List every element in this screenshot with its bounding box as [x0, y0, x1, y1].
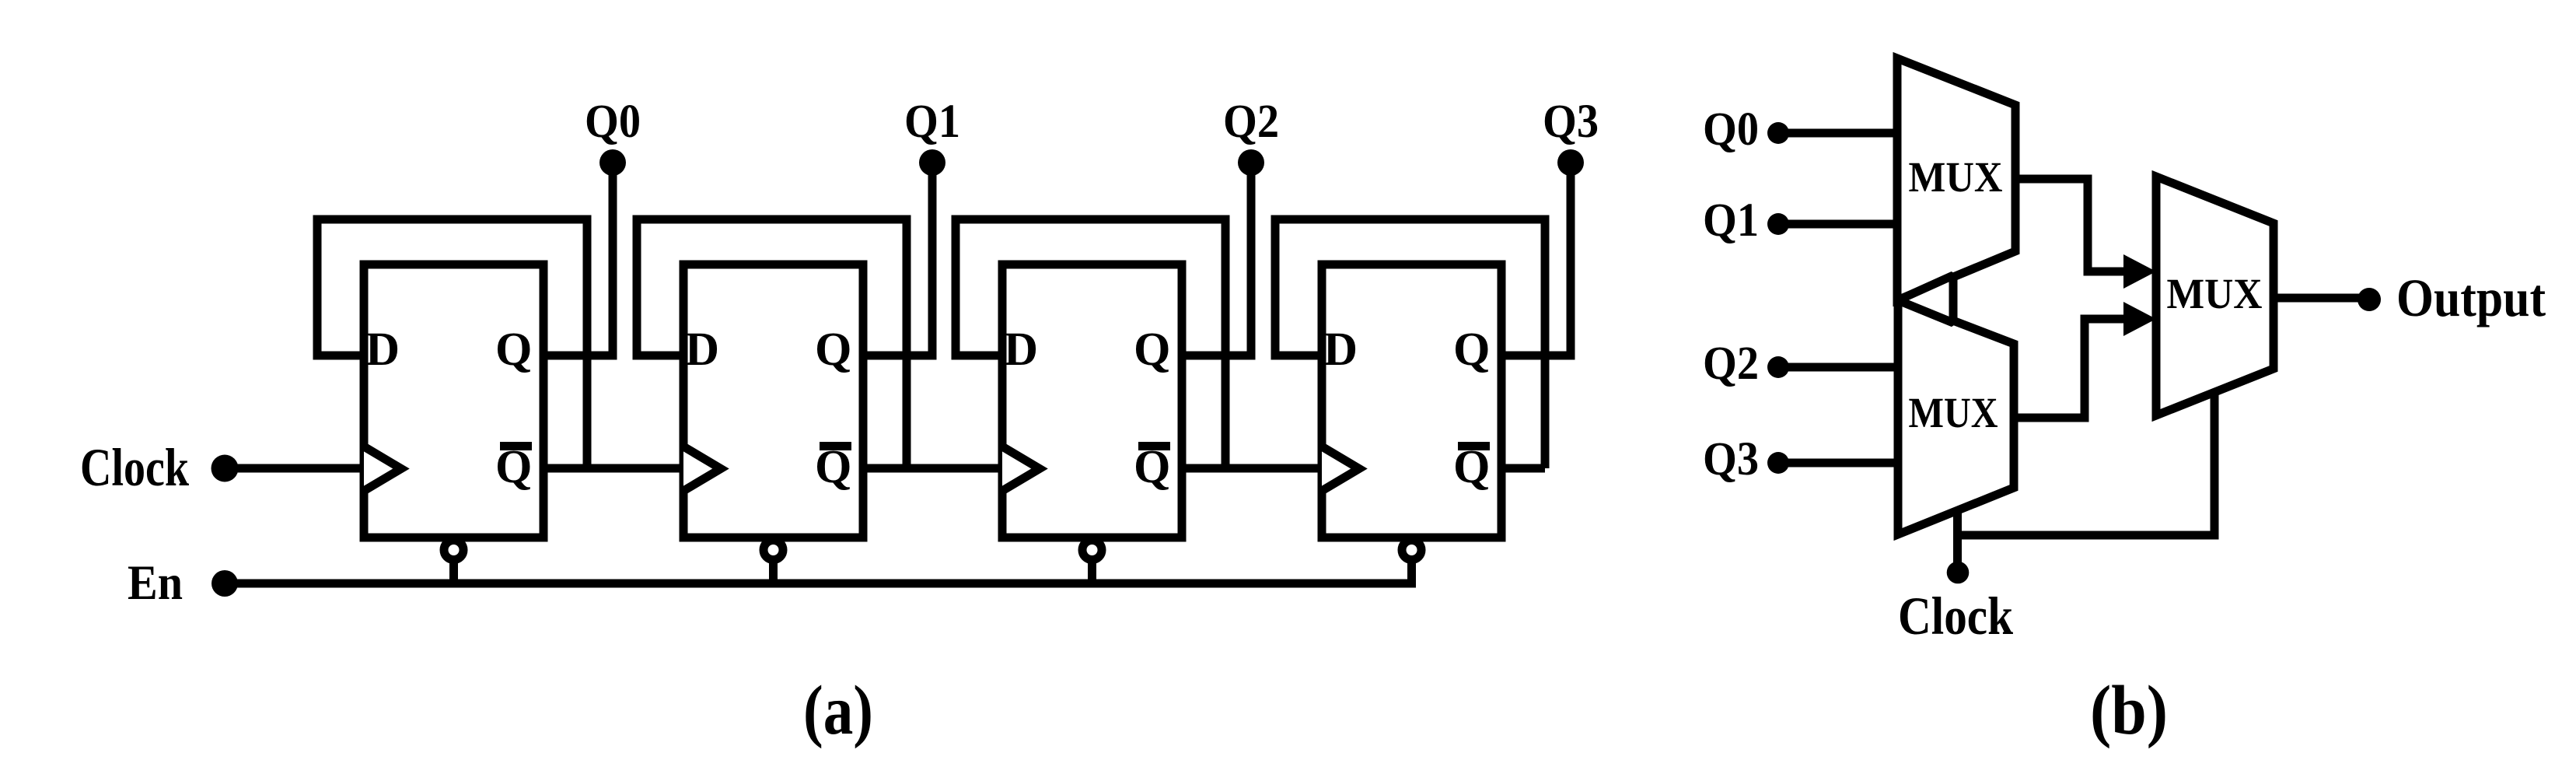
- wire U2 Qbar output to next stage clock: [863, 464, 1002, 473]
- enable bubble stub of U4: [1407, 550, 1416, 583]
- wire U4 Qbar output stub: [1501, 464, 1545, 473]
- node Output dot: [2358, 288, 2381, 311]
- svg-text:Q: Q: [1453, 324, 1490, 376]
- wire U1 Qbar feedback loop to D input: [317, 219, 587, 468]
- svg-text:D: D: [1004, 324, 1038, 376]
- wire U4 Qbar feedback loop to D input: [1275, 219, 1545, 468]
- wire U1 Q output to Q0 tap: [544, 163, 613, 355]
- flip-flop U1 body: [364, 264, 544, 538]
- node En input dot: [211, 570, 238, 597]
- wire Q2 to mux input: [1778, 363, 1898, 372]
- wire U4 Q output to Q3 tap: [1501, 163, 1571, 355]
- enable bubble stub of U2: [769, 550, 778, 583]
- mux U6 body (bottom 2:1 MUX): [1898, 299, 2014, 534]
- svg-text:Q1: Q1: [904, 96, 960, 148]
- wire Clock to U6 select: [1953, 510, 1962, 573]
- svg-text:Q3: Q3: [1543, 96, 1599, 148]
- mux U7 body (output 2:1 MUX): [2156, 177, 2274, 415]
- node Q1 input dot (mux section): [1767, 213, 1789, 235]
- svg-text:Q3: Q3: [1703, 433, 1759, 485]
- svg-text:Q: Q: [495, 324, 532, 376]
- wire Q1 to mux input: [1778, 220, 1898, 229]
- enable bubble of U3: [1082, 541, 1102, 560]
- node Q3 input dot (mux section): [1767, 452, 1789, 474]
- wire U3 Qbar output to next stage clock: [1182, 464, 1322, 473]
- svg-text:Clock: Clock: [80, 438, 190, 497]
- wire En bus to all flip-flop enable bubbles: [225, 562, 1412, 583]
- node Q3 tap dot: [1557, 149, 1584, 176]
- svg-text:Q2: Q2: [1703, 338, 1759, 390]
- node Clock dot (mux section): [1947, 562, 1970, 584]
- enable bubble stub of U1: [449, 550, 458, 583]
- node Q1 tap dot: [919, 149, 945, 176]
- select wedge between U5 and U6: [1898, 275, 1953, 323]
- flip-flop U4 body: [1322, 264, 1501, 538]
- svg-text:MUX: MUX: [1909, 389, 1998, 436]
- svg-text:Q0: Q0: [1703, 103, 1759, 156]
- node Q2 tap dot: [1238, 149, 1264, 176]
- flip-flop U3 body: [1002, 264, 1182, 538]
- mux U5 body (top 2:1 MUX): [1897, 58, 2015, 300]
- svg-text:(b): (b): [2090, 672, 2168, 749]
- svg-text:MUX: MUX: [1909, 153, 2003, 201]
- clock edge triangle of U2: [683, 447, 721, 491]
- overbar of Qbar label U3: [1138, 442, 1170, 450]
- svg-text:Q1: Q1: [1703, 194, 1759, 247]
- node Q2 input dot (mux section): [1767, 356, 1789, 378]
- arrowhead into U7 top input: [2123, 254, 2156, 289]
- overbar of Qbar label U2: [820, 442, 851, 450]
- wire Clock to U1 clock pin: [225, 464, 364, 473]
- flip-flop U2 body: [683, 264, 863, 538]
- enable bubble of U4: [1402, 541, 1421, 560]
- svg-text:Q: Q: [1134, 324, 1170, 376]
- clock edge triangle of U1: [364, 447, 401, 491]
- enable bubble stub of U3: [1088, 550, 1096, 583]
- wire U2 Q output to Q1 tap: [863, 163, 932, 355]
- svg-text:Clock: Clock: [1898, 587, 2014, 646]
- wire U3 Q output to Q2 tap: [1182, 163, 1251, 355]
- wire U5 output to U7 input: [2015, 179, 2128, 271]
- enable bubble of U1: [444, 541, 463, 560]
- arrowhead into U7 bottom input: [2123, 302, 2156, 336]
- overbar of Qbar label U1: [500, 442, 532, 450]
- node Q0 input dot (mux section): [1767, 122, 1789, 144]
- wire U7 output to Output node: [2274, 294, 2364, 303]
- svg-text:MUX: MUX: [2167, 270, 2263, 317]
- svg-text:Output: Output: [2396, 268, 2546, 327]
- svg-text:Q0: Q0: [585, 96, 641, 148]
- svg-text:Q: Q: [815, 324, 851, 376]
- wire Q0 to mux input: [1778, 129, 1898, 138]
- wire U2 Qbar feedback loop to D input: [637, 219, 907, 468]
- svg-text:D: D: [1323, 324, 1358, 376]
- svg-text:(a): (a): [803, 672, 873, 749]
- node Q0 tap dot: [599, 149, 626, 176]
- clock edge triangle of U3: [1002, 447, 1040, 491]
- clock edge triangle of U4: [1322, 447, 1359, 491]
- svg-text:D: D: [685, 324, 719, 376]
- wire Clock branch to U7 select: [1957, 391, 2214, 535]
- svg-text:Q2: Q2: [1223, 96, 1279, 148]
- wire U1 Qbar output to next stage clock: [544, 464, 683, 473]
- svg-text:En: En: [128, 555, 183, 610]
- enable bubble of U2: [764, 541, 783, 560]
- wire U6 output to U7 input: [2014, 319, 2128, 418]
- wire U3 Qbar feedback loop to D input: [956, 219, 1225, 468]
- node Clock input dot: [211, 455, 239, 482]
- overbar of Qbar label U4: [1458, 442, 1490, 450]
- svg-text:D: D: [365, 324, 400, 376]
- wire Q3 to mux input: [1778, 459, 1898, 468]
